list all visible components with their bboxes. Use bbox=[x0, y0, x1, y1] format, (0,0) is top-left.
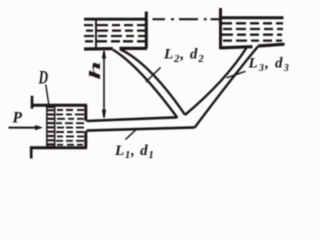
svg-text:h: h bbox=[85, 61, 103, 80]
svg-text:L3, d3: L3, d3 bbox=[248, 56, 290, 74]
svg-text:P: P bbox=[13, 110, 23, 127]
svg-text:D: D bbox=[38, 69, 49, 89]
svg-text:L2, d2: L2, d2 bbox=[163, 47, 205, 65]
svg-text:L1, d1: L1, d1 bbox=[114, 143, 155, 161]
